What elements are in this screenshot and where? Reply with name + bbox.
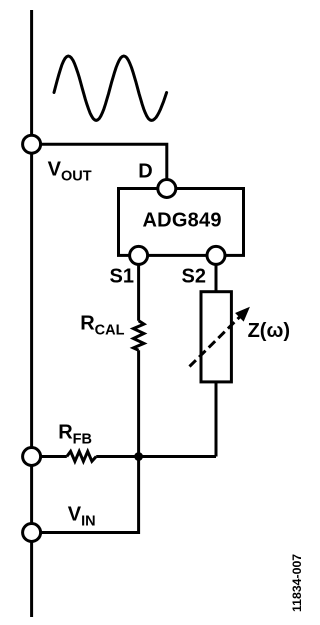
svg-text:S2: S2	[182, 265, 206, 287]
svg-text:S1: S1	[110, 265, 134, 287]
svg-text:VIN: VIN	[68, 503, 96, 529]
svg-text:Z(ω): Z(ω)	[248, 320, 290, 342]
svg-text:ADG849: ADG849	[143, 210, 222, 232]
svg-text:11834-007: 11834-007	[290, 554, 304, 612]
svg-text:VOUT: VOUT	[48, 158, 92, 184]
svg-text:RCAL: RCAL	[80, 313, 124, 339]
svg-text:RFB: RFB	[58, 422, 92, 448]
svg-text:D: D	[138, 161, 152, 183]
